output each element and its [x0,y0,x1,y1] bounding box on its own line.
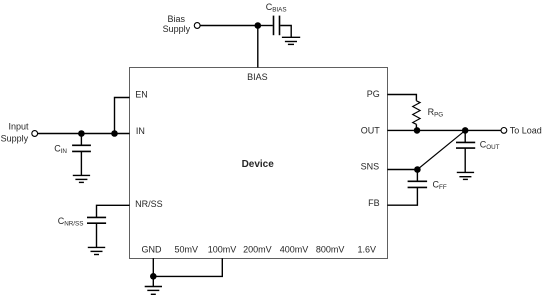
svg-text:1.6V: 1.6V [357,244,376,254]
svg-text:FB: FB [368,198,380,208]
svg-text:EN: EN [135,90,148,100]
svg-text:200mV: 200mV [243,244,272,254]
svg-text:To Load: To Load [510,125,542,135]
svg-text:Supply: Supply [1,134,29,144]
svg-text:SNS: SNS [361,162,380,172]
svg-text:50mV: 50mV [175,244,199,254]
svg-text:GND: GND [142,244,163,254]
svg-text:Device: Device [242,159,275,170]
svg-text:100mV: 100mV [208,244,237,254]
svg-text:OUT: OUT [361,126,381,136]
svg-text:PG: PG [367,89,380,99]
svg-text:NR/SS: NR/SS [135,199,163,209]
svg-text:Input: Input [8,121,29,131]
svg-text:800mV: 800mV [316,244,345,254]
svg-text:400mV: 400mV [280,244,309,254]
svg-text:Bias: Bias [168,14,186,24]
svg-text:BIAS: BIAS [247,72,268,82]
svg-text:IN: IN [136,126,145,136]
svg-text:Supply: Supply [163,24,191,34]
